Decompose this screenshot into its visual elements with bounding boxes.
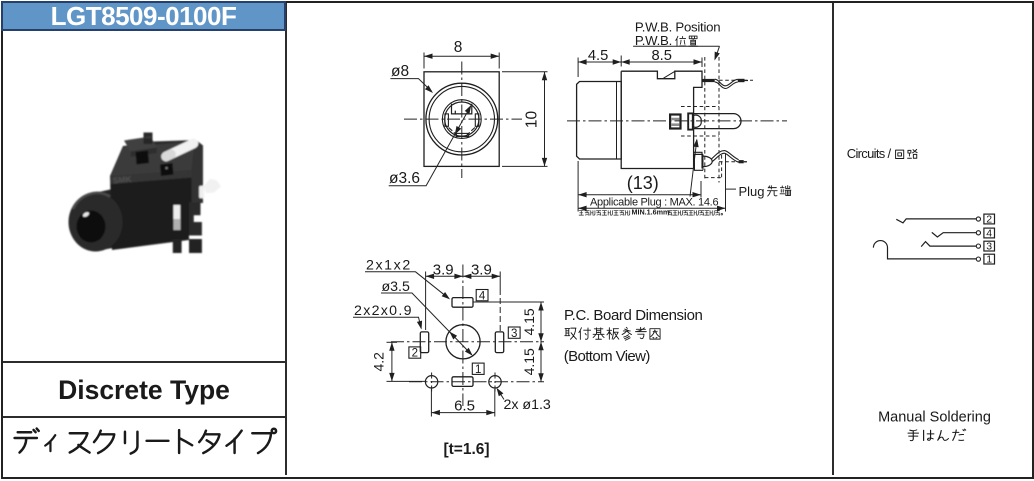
2x1x2 leader arrowhead — [442, 292, 450, 299]
dim 6.5 extension line left — [430, 389, 432, 417]
bottom view mount hole left (o1.3) — [425, 376, 437, 388]
dim 4.5 8.5 dimension line — [578, 61, 702, 63]
svg-text:Plug: Plug — [739, 184, 765, 199]
dim 4.15 arrow bottom — [538, 373, 543, 382]
dim 3.9 center arrows — [454, 274, 463, 279]
o8 leader arrowhead — [425, 85, 433, 93]
bottom view left pad (terminal 2) — [420, 332, 428, 353]
bottom view center hole circle — [446, 325, 480, 359]
dim 14.6 dimension line — [578, 207, 725, 209]
svg-text:ø3.6: ø3.6 — [389, 170, 420, 187]
o3.6 leader lower arrowhead — [455, 126, 462, 135]
circuit terminal box 1 — [984, 254, 995, 264]
svg-text:2x1x2: 2x1x2 — [366, 258, 412, 274]
svg-text:2: 2 — [986, 213, 992, 225]
dim 3.9 arrow far left — [426, 274, 435, 279]
dim 4.2 extension line bottom — [387, 380, 427, 382]
bottom view right pad (terminal 3) — [495, 332, 503, 353]
te-handa caption: n — [938, 431, 949, 441]
dim 14.6 arrow right — [717, 206, 726, 211]
svg-text:8: 8 — [454, 39, 463, 56]
dim 6.5 arrow right — [486, 410, 495, 415]
plug tip extension line — [725, 153, 727, 212]
dim 13 extension line right — [700, 181, 702, 198]
katakana type label: long bar — [147, 440, 169, 442]
photo top face hole left — [136, 151, 150, 165]
plug tip kanji tan — [780, 186, 791, 196]
te-handa caption: te — [908, 430, 918, 441]
right column divider — [832, 3, 834, 475]
dim 3.9 extension line right — [499, 272, 501, 290]
label 2x1x2 underline and leader — [365, 272, 449, 298]
katakana type label: di — [15, 429, 39, 453]
katakana type label: i — [227, 431, 242, 453]
svg-text:P.C. Board Dimension: P.C. Board Dimension — [564, 307, 703, 324]
o8 label underline and leader — [390, 79, 431, 92]
side view top terminal base bar — [702, 79, 714, 82]
circuit terminal box 4 — [984, 228, 995, 238]
dim 3.9 dimension line — [426, 275, 501, 277]
terminal number box 4 — [476, 290, 488, 301]
dim 4.5 8.5 extension line middle — [620, 56, 622, 67]
dim 8 arrow left — [424, 54, 433, 59]
board caption kanji ban — [607, 328, 619, 340]
circuit wire to terminal 4 — [932, 232, 976, 237]
katakana type label: ku — [94, 431, 114, 453]
o3.5 leader near arrowhead — [449, 332, 457, 340]
side view center pin tip arc — [693, 115, 701, 127]
bottom view horizontal centerline — [391, 341, 544, 343]
svg-text:(Bottom View): (Bottom View) — [564, 348, 651, 365]
photo top face — [111, 142, 195, 177]
terminal number box 3 — [508, 327, 520, 338]
board caption kanji fu — [579, 328, 591, 340]
katakana type label: small i — [45, 435, 55, 451]
front view contact separator tick bottom-left — [454, 132, 457, 134]
front view left contact slot — [445, 114, 449, 126]
dim 8 arrow right — [491, 54, 500, 59]
svg-text:1: 1 — [475, 364, 481, 376]
svg-text:2x ø1.3: 2x ø1.3 — [504, 397, 551, 413]
circuit open terminal circle 3 — [976, 244, 980, 248]
side view top terminal end bar — [738, 79, 745, 82]
svg-text:Circuits /: Circuits / — [847, 146, 892, 161]
dim 4.2 extension line top — [387, 341, 398, 343]
horizontal divider below Discrete Type — [3, 416, 285, 418]
dim 10 arrow top — [542, 72, 547, 81]
photo white pin on top — [166, 144, 194, 157]
bottom view bottom pad (terminal 1) — [452, 377, 473, 387]
side view barrel outline — [577, 82, 622, 160]
dim 4.5 arrow right — [613, 59, 622, 64]
dim 8.5 extension line right — [701, 58, 703, 68]
te-handa caption: da — [953, 429, 966, 440]
pwb position dashed line left — [704, 57, 706, 181]
side view horizontal centerline — [567, 120, 787, 122]
svg-text:4.15: 4.15 — [521, 348, 537, 375]
svg-text:6.5: 6.5 — [454, 398, 475, 415]
svg-text:Manual Soldering: Manual Soldering — [878, 409, 991, 425]
svg-text:8.5: 8.5 — [651, 48, 671, 64]
dim 8.5 arrow left — [621, 59, 630, 64]
side view rear lower step — [694, 152, 702, 168]
front view second circle — [429, 86, 494, 151]
dim 3.9 extension line left — [425, 272, 427, 331]
katakana type label: pu — [252, 429, 276, 453]
left column divider — [285, 3, 287, 475]
side view body top notch diagonal — [664, 72, 675, 79]
dim 4.2 arrow top — [389, 342, 394, 351]
svg-text:2x2x0.9: 2x2x0.9 — [354, 303, 413, 319]
dim 8 extension line right — [498, 53, 500, 69]
katakana type label: ta — [199, 431, 219, 453]
svg-text:3.9: 3.9 — [433, 261, 454, 278]
photo rear tab top — [124, 137, 157, 152]
plug area leader arrowhead — [693, 139, 698, 148]
pwb leader arrowhead — [715, 52, 720, 61]
dim 8.5 arrow right — [694, 59, 703, 64]
front view vertical centerline — [461, 62, 463, 179]
svg-text:[t=1.6]: [t=1.6] — [443, 441, 489, 458]
o3.5 leader far arrowhead — [465, 348, 473, 356]
svg-text:SMK: SMK — [112, 174, 133, 186]
te-handa caption: ha — [924, 430, 934, 440]
label 2x2x0.9 underline and leader — [353, 317, 421, 328]
plug label leader — [726, 188, 737, 190]
tiny note fake glyphs left run — [579, 211, 583, 216]
svg-text:1: 1 — [986, 253, 992, 265]
dim 8 dimension line — [424, 55, 498, 57]
svg-text:4: 4 — [479, 290, 486, 302]
circuit open terminal circle 4 — [976, 231, 980, 235]
front view contact separator tick lower-right — [471, 128, 475, 131]
circuit wire to terminal 1 with center pin hook — [873, 241, 976, 259]
board caption kanji san — [622, 327, 631, 340]
svg-text:4: 4 — [986, 227, 992, 239]
circuits caption kanji kai — [896, 150, 904, 158]
bottom terminal hole dashed centerline — [719, 161, 747, 163]
dim 10 extension line bottom — [502, 165, 548, 167]
photo hole metal glint — [166, 167, 168, 169]
pwb bottom dashed edge — [705, 155, 722, 178]
pwb position kanji i — [676, 36, 686, 46]
label o3.5 underline and leader — [381, 293, 472, 355]
front view top contact notch — [452, 104, 472, 114]
dim 10 arrow bottom — [542, 158, 547, 167]
board caption kanji ki — [593, 328, 604, 339]
front view hole circle (o3.6) — [445, 102, 479, 136]
circuits caption kanji ro — [908, 149, 917, 158]
dim 13 dimension line — [578, 194, 701, 196]
side view main body outline — [621, 71, 702, 168]
board caption kanji shu — [565, 328, 577, 339]
Discrete Type label — [3, 377, 285, 404]
circuit terminal box 3 — [984, 241, 995, 251]
side view center pin flange — [688, 113, 693, 129]
pwb label underline — [633, 45, 719, 47]
dim 4.15 extension line top — [474, 301, 545, 303]
pwb position dashed line right — [718, 57, 720, 183]
photo connector body silhouette — [110, 133, 203, 251]
front view horizontal centerline — [404, 118, 522, 120]
svg-text:4.5: 4.5 — [588, 48, 608, 64]
left extension line lower — [577, 161, 579, 212]
dim 4.5 8.5 extension line left — [577, 58, 579, 78]
front view outer circle (o8 barrel) — [426, 83, 498, 155]
2x o1.3 leader arrowhead — [497, 388, 504, 397]
photo front face — [111, 178, 193, 250]
plug outline dashed top — [681, 106, 719, 108]
tiny note fake glyphs right run — [668, 211, 672, 215]
dim 4.15 dimension line — [540, 302, 542, 382]
photo barrel tube — [94, 181, 157, 251]
photo white hook pin flag — [204, 179, 222, 194]
katakana type label: su — [70, 433, 90, 452]
svg-text:4.15: 4.15 — [521, 308, 537, 335]
photo actuator window white — [174, 205, 181, 230]
dim 4.15 middle arrows — [538, 333, 543, 342]
dim 6.5 arrow left — [431, 410, 440, 415]
dim 6.5 dimension line — [431, 412, 494, 414]
2x2x0.9 leader arrowhead — [417, 321, 422, 330]
photo right face — [192, 142, 204, 203]
plug outline dashed bottom — [681, 135, 719, 137]
dim 6.5 extension line right — [494, 389, 496, 417]
pwb label leader line — [715, 46, 719, 58]
mount hole left vertical centerline — [431, 373, 433, 393]
svg-text:2: 2 — [412, 348, 418, 360]
dim 4.2 dimension line — [391, 342, 393, 381]
svg-text:3.9: 3.9 — [471, 261, 492, 278]
side view barrel end cap line — [616, 82, 618, 160]
photo center pin highlight inside hole — [82, 211, 90, 218]
katakana type label: to — [179, 430, 192, 453]
svg-text:ø8: ø8 — [391, 63, 409, 80]
board caption kanji kou — [636, 327, 647, 338]
plug area diagonal leader — [690, 140, 697, 197]
side view center pin body — [692, 114, 741, 129]
dim 10 dimension line — [544, 72, 546, 166]
dim 8 extension line left — [423, 53, 425, 69]
svg-text:3: 3 — [986, 240, 992, 252]
dim 3.9 arrow far right — [492, 274, 501, 279]
front view inner ring circle — [442, 100, 481, 139]
svg-text:4.2: 4.2 — [371, 352, 387, 372]
pwb position kanji chi — [689, 36, 698, 46]
dim 4.2 arrow bottom — [389, 373, 394, 382]
svg-text:3: 3 — [511, 328, 517, 340]
dim 10 extension line top — [502, 71, 548, 73]
front view bottom contact slot — [456, 133, 469, 136]
mount hole right vertical centerline — [494, 373, 496, 393]
katakana type label: ri — [125, 432, 137, 454]
dim 4.5 arrow left — [578, 59, 587, 64]
photo barrel front ring — [69, 193, 123, 252]
circuit open terminal circle 1 — [976, 257, 980, 261]
tiny note period — [721, 213, 723, 215]
bottom view top pad (terminal 4) — [452, 298, 473, 308]
svg-text:P.W.B.: P.W.B. — [635, 33, 672, 48]
board caption kanji zu — [650, 329, 660, 339]
svg-text:10: 10 — [524, 111, 541, 129]
bottom view lower row centerline — [409, 381, 544, 383]
plug tip kanji sen — [767, 186, 777, 196]
dim 13 arrow right — [693, 192, 702, 197]
svg-text:ø3.5: ø3.5 — [382, 279, 410, 295]
photo right bracket — [189, 202, 202, 235]
svg-text:Applicable Plug : MAX. 14.6: Applicable Plug : MAX. 14.6 — [590, 197, 718, 209]
terminal number box 2 — [409, 347, 421, 358]
photo top face hole right — [160, 163, 174, 176]
circuit wire to terminal 3 — [921, 242, 976, 247]
front view contact separator tick lower-left — [449, 128, 453, 131]
front view contact separator tick bottom-right — [467, 132, 470, 134]
dim 14.6 arrow left — [578, 206, 587, 211]
horizontal divider above Discrete Type — [3, 361, 285, 363]
svg-text:MIN.1.6mm: MIN.1.6mm — [632, 208, 670, 217]
dim 4.15 arrow top — [538, 302, 543, 311]
front view body outline — [424, 72, 499, 167]
part number header box — [1, 1, 286, 31]
bottom view vertical centerline — [462, 265, 464, 407]
svg-text:(13): (13) — [627, 173, 659, 193]
circuit open terminal circle 2 — [976, 217, 980, 221]
side view top terminal wave outline — [715, 79, 738, 88]
o3.6 leader upper arrowhead — [465, 105, 472, 114]
front view right contact slot — [475, 114, 479, 126]
terminal number box 1 — [472, 363, 484, 374]
dim 13 arrow left — [578, 192, 587, 197]
top terminal hole dashed centerline — [719, 79, 753, 81]
photo beveled front-top strip with logo — [111, 170, 193, 184]
photo bottom legs — [173, 239, 182, 253]
photo rear nub front — [144, 138, 153, 144]
side view bottom terminal lug — [694, 154, 712, 170]
side view shield block — [670, 115, 680, 129]
bottom view mount hole right (o1.3) — [489, 376, 501, 388]
label 2x o1.3 leader — [498, 389, 505, 399]
o3.6 label underline and leader — [389, 106, 471, 186]
side view bottom terminal wave outline — [712, 151, 739, 163]
photo rear tab front — [131, 148, 158, 158]
side view bottom terminal end bar — [739, 160, 744, 163]
circuit wire to terminal 2 — [896, 219, 976, 223]
circuit terminal box 2 — [984, 214, 995, 224]
photo white side pin leg — [199, 186, 204, 199]
photo barrel hole — [77, 211, 106, 243]
